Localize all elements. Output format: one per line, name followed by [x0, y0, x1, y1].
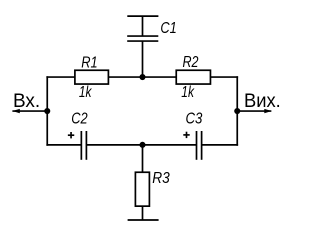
- svg-text:1k: 1k: [181, 84, 195, 101]
- svg-text:C2: C2: [71, 111, 88, 128]
- svg-text:R3: R3: [152, 170, 170, 187]
- svg-text:C1: C1: [160, 20, 176, 37]
- svg-text:R2: R2: [183, 54, 199, 71]
- svg-text:C3: C3: [186, 111, 203, 128]
- svg-text:Вих.: Вих.: [244, 90, 281, 112]
- svg-text:Вх.: Вх.: [13, 90, 40, 112]
- svg-text:1k: 1k: [79, 84, 93, 101]
- svg-text:R1: R1: [81, 54, 97, 71]
